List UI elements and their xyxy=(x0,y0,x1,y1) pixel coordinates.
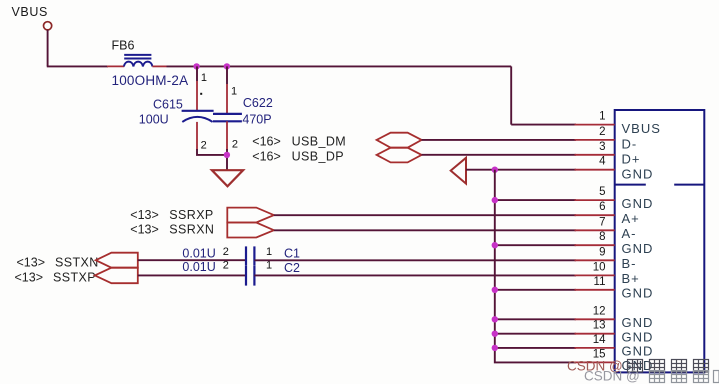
svg-text:GND: GND xyxy=(622,241,654,256)
pin 14 stub xyxy=(575,347,615,349)
svg-text:USB_DP: USB_DP xyxy=(292,150,344,164)
svg-text:GND: GND xyxy=(622,315,654,330)
wire pin 13 GND xyxy=(495,333,576,335)
svg-text:VBUS: VBUS xyxy=(12,5,48,19)
junction at capacitors bottom xyxy=(224,152,230,158)
svg-text:11: 11 xyxy=(594,276,606,288)
pin 7 stub xyxy=(575,229,615,231)
pin 10 stub xyxy=(575,274,615,276)
svg-text:FB6: FB6 xyxy=(112,38,135,52)
junction pin 8 xyxy=(492,242,498,248)
ferrite bead FB6 core bars xyxy=(124,54,151,56)
offpage connector SSTXP arrow xyxy=(95,268,138,284)
pin 12 stub xyxy=(575,318,615,320)
junction pin 11 xyxy=(492,287,498,293)
wire pin 12 GND xyxy=(495,318,576,320)
svg-text:A-: A- xyxy=(622,226,637,241)
svg-text:GND: GND xyxy=(622,329,654,344)
pin 3 stub xyxy=(575,154,615,156)
offpage connector D+ hexagon xyxy=(377,148,422,163)
svg-text:SSTXP: SSTXP xyxy=(53,270,96,284)
offpage connector SSRXP arrow xyxy=(227,208,274,223)
svg-text:4: 4 xyxy=(599,156,606,168)
capacitor C622 plates xyxy=(213,113,242,115)
wire VBUS vertical from port xyxy=(47,30,49,67)
svg-text:VBUS: VBUS xyxy=(622,121,661,136)
capacitor C615 curved plate xyxy=(182,117,212,122)
wire C2 to pin 10 xyxy=(254,274,576,276)
capacitor C615 polarity dot xyxy=(200,93,202,95)
svg-text:5: 5 xyxy=(599,186,605,198)
wire C622 bottom to ground xyxy=(226,149,228,170)
pin 2 stub xyxy=(575,139,615,141)
offpage connector SSTXN arrow xyxy=(96,253,138,268)
svg-text:SSRXN: SSRXN xyxy=(169,223,214,237)
svg-text:0.01U: 0.01U xyxy=(182,260,215,274)
watermark row 1 glyphs xyxy=(628,360,709,373)
capacitor C615 pin 2 xyxy=(196,122,198,150)
pin 13 stub xyxy=(575,333,615,335)
ground symbol xyxy=(212,170,243,186)
junction GND bus top xyxy=(492,167,498,173)
wire SSRXP to pin 6 xyxy=(274,214,576,216)
wire SSTXP to C2 xyxy=(138,274,246,276)
pin 1 stub xyxy=(575,124,615,126)
wire VBUS down to pin 1 xyxy=(510,66,512,124)
svg-text:GND: GND xyxy=(622,286,654,301)
wire GND bus vertical xyxy=(495,170,576,363)
capacitor C615 top plate xyxy=(182,110,214,112)
wire pin 8 GND xyxy=(495,244,576,246)
svg-text:C622: C622 xyxy=(243,96,273,110)
svg-text:13: 13 xyxy=(593,320,606,332)
pin 9 stub xyxy=(575,259,615,261)
wire pin 5 GND xyxy=(495,199,576,201)
capacitor C622 top wire xyxy=(226,66,228,84)
svg-text:A+: A+ xyxy=(622,211,640,226)
svg-text:1: 1 xyxy=(266,246,272,258)
capacitor C2 plates xyxy=(245,266,247,286)
pin 11 stub xyxy=(575,289,615,291)
capacitor C622 pin 1 xyxy=(226,84,228,114)
svg-text:<13>: <13> xyxy=(130,208,159,222)
capacitor C622 pin 2 xyxy=(226,121,228,150)
svg-text:2: 2 xyxy=(201,139,207,151)
svg-text:2: 2 xyxy=(223,259,229,271)
watermark row 2 glyphs xyxy=(650,371,719,383)
svg-text:1: 1 xyxy=(231,85,237,97)
svg-text:<13>: <13> xyxy=(15,270,44,284)
svg-text:7: 7 xyxy=(599,216,605,228)
svg-text:8: 8 xyxy=(599,231,605,243)
pin 4 stub xyxy=(575,169,615,171)
svg-text:B-: B- xyxy=(622,256,637,271)
wire VBUS to pin 1 xyxy=(511,124,576,126)
svg-text:100OHM-2A: 100OHM-2A xyxy=(112,73,189,88)
svg-text:470P: 470P xyxy=(242,112,271,126)
wire D- to pin 2 xyxy=(422,139,576,141)
svg-text:100U: 100U xyxy=(139,112,169,126)
ferrite bead FB6 coil xyxy=(124,62,152,67)
svg-text:C615: C615 xyxy=(153,97,183,111)
connector J box xyxy=(615,110,705,372)
svg-text:2: 2 xyxy=(599,126,605,138)
svg-text:CSDN @: CSDN @ xyxy=(584,369,640,384)
wire pin 14 GND xyxy=(495,347,576,349)
junction pin 14 xyxy=(492,345,498,351)
svg-text:GND: GND xyxy=(622,166,654,181)
svg-text:<13>: <13> xyxy=(130,223,159,237)
pin 15 stub xyxy=(575,361,615,363)
port VBUS circle xyxy=(44,22,52,30)
junction pin 5 xyxy=(492,197,498,203)
svg-text:B+: B+ xyxy=(622,271,640,286)
svg-text:SSTXN: SSTXN xyxy=(55,255,99,269)
svg-text:10: 10 xyxy=(593,261,606,273)
svg-text:<13>: <13> xyxy=(17,255,46,269)
wire VBUS horizontal left of FB6 xyxy=(47,65,108,67)
junction at C622 top xyxy=(224,63,230,69)
pin 8 stub xyxy=(575,244,615,246)
pin 5 stub xyxy=(575,199,615,201)
svg-text:3: 3 xyxy=(599,141,605,153)
capacitor C615 pin 1 xyxy=(196,81,198,111)
svg-text:USB_DM: USB_DM xyxy=(292,135,347,149)
svg-text:D-: D- xyxy=(622,137,638,152)
wire SSRXN to pin 7 xyxy=(274,229,576,231)
wire D+ to pin 3 xyxy=(422,154,576,156)
connector section divider xyxy=(615,184,646,186)
wire SSTXN to C1 xyxy=(138,259,246,261)
svg-text:C1: C1 xyxy=(284,247,300,261)
svg-text:<16>: <16> xyxy=(252,150,281,164)
svg-text:<16>: <16> xyxy=(252,135,281,149)
svg-text:0.01U: 0.01U xyxy=(182,247,215,261)
svg-text:14: 14 xyxy=(593,334,606,346)
svg-text:D+: D+ xyxy=(622,151,641,166)
power arrow GND triangle xyxy=(451,158,466,184)
svg-text:GND: GND xyxy=(622,196,654,211)
capacitor C1 plates xyxy=(245,246,247,265)
wire VBUS horizontal to connector column xyxy=(167,65,512,67)
junction at C615 top xyxy=(193,63,199,69)
svg-text:9: 9 xyxy=(599,246,605,258)
offpage connector D- hexagon xyxy=(377,133,422,148)
svg-text:C2: C2 xyxy=(284,261,300,275)
offpage connector SSRXN arrow xyxy=(227,223,274,238)
wire pin 11 GND xyxy=(495,289,576,291)
pin 6 stub xyxy=(575,214,615,216)
capacitor C615 top wire xyxy=(196,66,198,81)
junction pin 13 xyxy=(492,331,498,337)
svg-text:1: 1 xyxy=(201,72,207,84)
ferrite bead FB6 pin 2 stub xyxy=(152,65,166,67)
svg-text:1: 1 xyxy=(599,111,605,123)
svg-text:GND: GND xyxy=(622,344,654,359)
svg-text:2: 2 xyxy=(232,139,238,151)
svg-text:2: 2 xyxy=(223,246,229,258)
junction pin 12 xyxy=(492,316,498,322)
svg-text:12: 12 xyxy=(593,305,606,317)
ferrite bead FB6 pin 1 stub xyxy=(107,65,124,67)
svg-text:6: 6 xyxy=(599,201,605,213)
wire GND to pin 4 xyxy=(466,169,576,171)
wire C1 to pin 9 xyxy=(254,259,576,261)
svg-text:SSRXP: SSRXP xyxy=(169,208,213,222)
wire C615 bottom corner xyxy=(197,149,227,155)
